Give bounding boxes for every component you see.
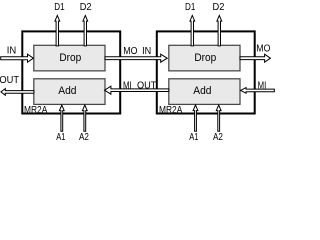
svg-text:D2: D2 [80,2,92,13]
arrow D1 port M2 (up out of Drop) [190,15,195,46]
svg-text:IN: IN [7,45,16,56]
label OUT mid [137,80,157,91]
label Drop M2 [194,52,216,64]
svg-text:MI: MI [123,79,132,90]
svg-text:MO: MO [256,42,270,54]
arrow A1 port M2 (up into Add) [193,105,198,131]
svg-text:D1: D1 [54,1,64,12]
svg-text:A1: A1 [189,131,198,142]
label A2 M2 [213,131,223,142]
label IN left [7,45,16,56]
svg-text:D2: D2 [213,2,225,13]
svg-text:MO: MO [123,44,137,56]
label MO right [256,42,270,54]
label D2 M2 [213,2,225,13]
svg-text:A1: A1 [56,131,65,142]
label MI right [258,79,267,90]
label Add M2 [193,85,211,97]
svg-text:A2: A2 [79,131,89,142]
Drop block M2 [169,45,240,71]
svg-text:A2: A2 [213,131,223,142]
svg-text:MI: MI [258,79,267,90]
Drop block M1 [34,45,105,71]
label MR2A M1 [24,105,48,116]
module M1 outer box [22,31,120,113]
arrow A2 port M1 (up into Add) [82,105,87,131]
label MR2A M2 [159,105,183,116]
arrow OUT (line output from Add M1) [1,89,34,96]
module M2 outer box [157,31,255,113]
svg-text:MR2A: MR2A [24,105,48,116]
label A1 M2 [189,131,198,142]
label D1 M2 [185,1,195,12]
Add block M1 [34,79,105,105]
svg-text:Add: Add [58,85,76,97]
arrow D2 port M2 (up out of Drop) [217,15,222,46]
svg-text:OUT: OUT [0,75,19,86]
arrow D1 port M1 (up out of Drop) [55,15,60,46]
arrow MO M2 (line output right) [240,54,270,62]
label Drop M1 [59,52,81,64]
arrow A1 port M1 (up into Add) [59,105,64,131]
Add block M2 [169,79,240,105]
label OUT left [0,75,19,86]
label Add M1 [58,85,76,97]
arrow OUT M2 to MI M1 [105,86,169,94]
svg-text:IN: IN [142,46,151,58]
label MI mid [123,79,132,90]
arrow MI M2 (line input from right) [241,88,275,94]
svg-text:Add: Add [193,85,211,97]
svg-text:Drop: Drop [59,52,81,64]
svg-text:OUT: OUT [137,80,157,91]
arrow A2 port M2 (up into Add) [216,105,221,131]
label D1 M1 [54,1,64,12]
svg-text:Drop: Drop [194,52,216,64]
label A1 M1 [56,131,65,142]
arrow IN (line input into Drop M1) [1,54,34,62]
label A2 M1 [79,131,89,142]
arrow MO M1 to IN M2 [105,54,167,62]
label D2 M1 [80,2,92,13]
svg-text:MR2A: MR2A [159,105,183,116]
label MO mid [123,44,137,56]
arrow D2 port M1 (up out of Drop) [83,15,88,46]
label IN mid [142,46,151,58]
svg-text:D1: D1 [185,1,195,12]
